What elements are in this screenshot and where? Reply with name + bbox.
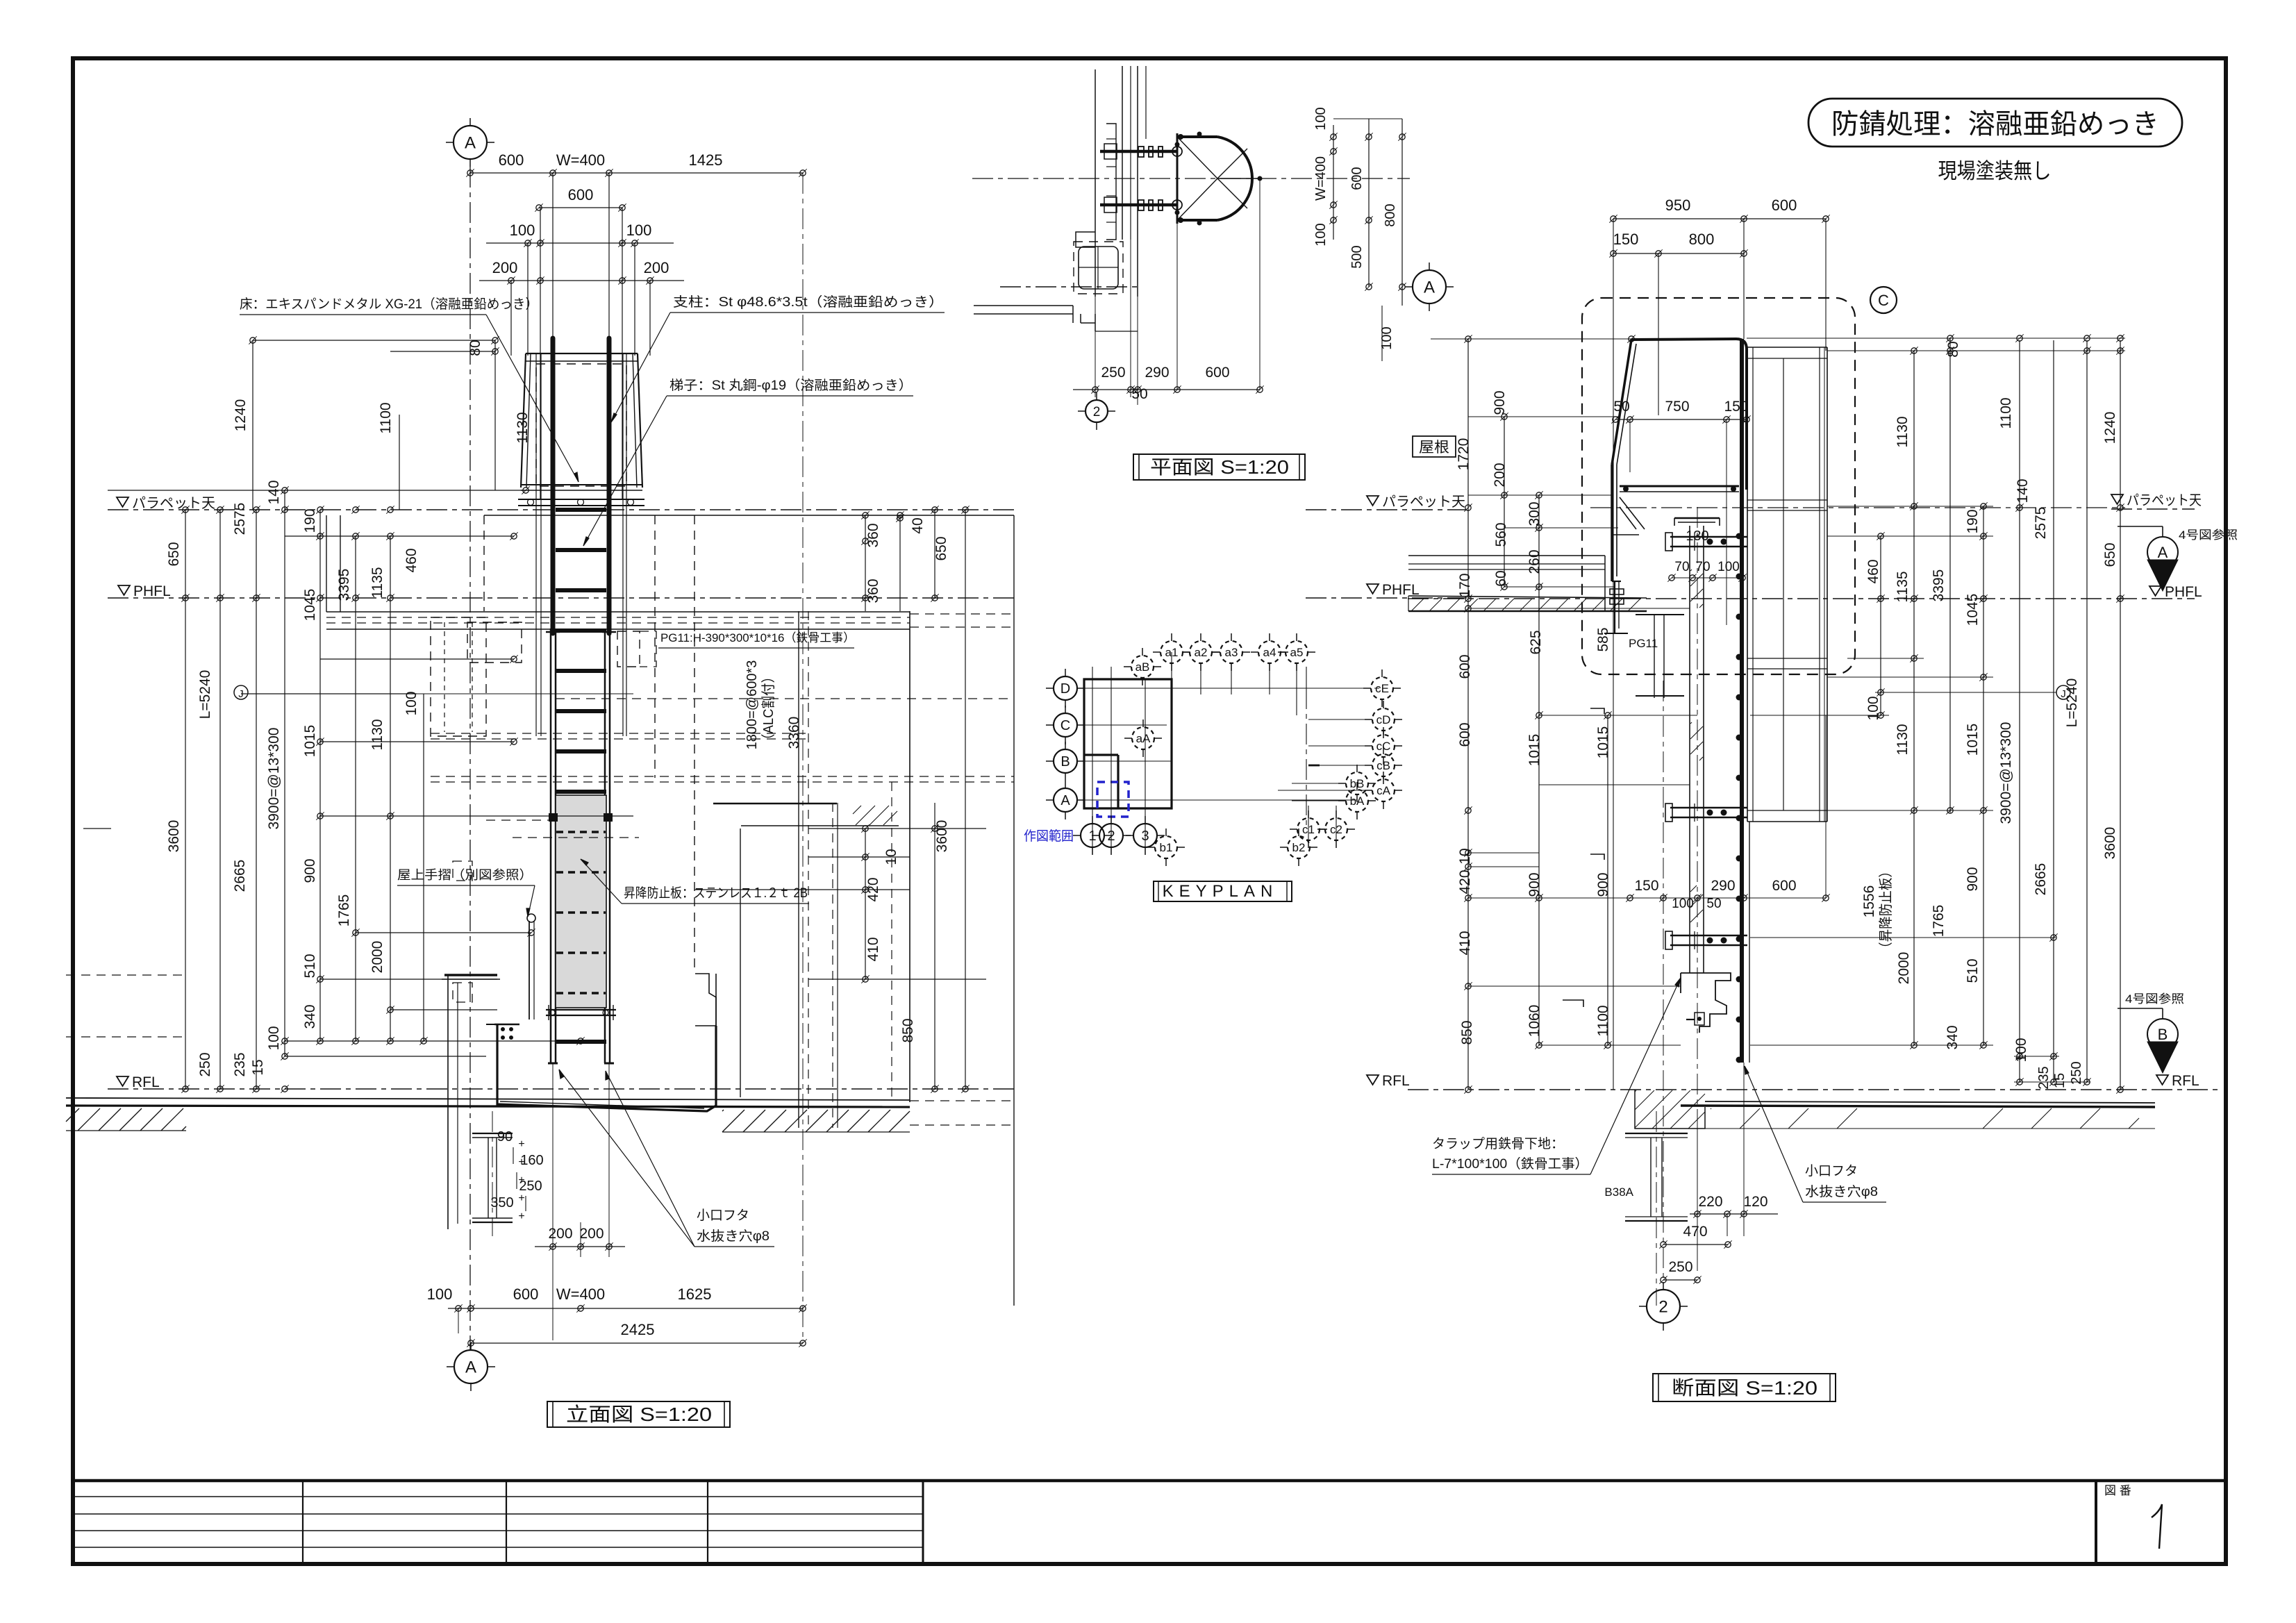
title block table [73, 1479, 2226, 1483]
svg-text:2575: 2575 [232, 503, 248, 535]
svg-text:a3: a3 [1225, 646, 1238, 659]
svg-text:70: 70 [1695, 560, 1710, 574]
svg-text:3395: 3395 [1931, 569, 1947, 602]
svg-text:4号図参照: 4号図参照 [2179, 528, 2238, 542]
plan grid circle A right [1413, 270, 1446, 303]
section cage knee braces [1620, 497, 1645, 529]
ladder cage post left 支柱 [551, 338, 556, 633]
plan view title box 平面図 S=1:20 [1133, 454, 1305, 480]
svg-text:3900=@13*300: 3900=@13*300 [266, 728, 282, 830]
svg-text:RFL: RFL [2172, 1073, 2199, 1089]
keyplan building outline bold [1084, 679, 1172, 808]
svg-text:585: 585 [1595, 627, 1611, 651]
svg-text:850: 850 [900, 1018, 916, 1042]
elevation view title box 立面図 S=1:20 [547, 1401, 730, 1427]
svg-text:B38A: B38A [1604, 1185, 1633, 1199]
elevation mid dashed band [431, 733, 806, 734]
svg-text:+: + [518, 1210, 524, 1222]
section cage floor [1620, 485, 1739, 488]
plan right dim chain W400 [1333, 125, 1334, 240]
svg-text:（昇降防止板）: （昇降防止板） [1878, 865, 1894, 955]
svg-text:360: 360 [865, 523, 881, 547]
level label parapet right [2111, 494, 2123, 504]
svg-text:W=400: W=400 [556, 151, 605, 169]
svg-text:900: 900 [1526, 872, 1542, 897]
svg-text:小口フタ: 小口フタ [1805, 1163, 1858, 1179]
plan building edge lines left [1000, 286, 1138, 288]
stamp box 防錆処理：溶融亜鉛めっき [1808, 99, 2182, 147]
svg-text:260: 260 [1526, 549, 1542, 574]
elevation right dim ticks [863, 513, 868, 518]
plan bolt tie lower [1100, 203, 1177, 207]
svg-text:1: 1 [1088, 829, 1096, 844]
section concrete pier hatched [1635, 1090, 1705, 1129]
svg-text:1625: 1625 [678, 1285, 712, 1303]
svg-text:1015: 1015 [302, 725, 318, 758]
level label PHFL mid [1367, 584, 1379, 594]
svg-text:PHFL: PHFL [2165, 584, 2202, 600]
svg-text:650: 650 [2102, 542, 2118, 567]
svg-text:3600: 3600 [166, 820, 182, 853]
keyplan left grid circles D C B A [1054, 676, 1077, 700]
svg-text:2575: 2575 [2033, 507, 2049, 540]
level label PHFL right [2149, 586, 2161, 596]
section right grid circle J [2056, 685, 2070, 699]
KEYPLAN title box [1154, 881, 1292, 901]
level label parapet left [117, 497, 128, 507]
section parapet cap [1674, 517, 1720, 519]
elevation dashed wall outline left of ladder lower [486, 819, 552, 821]
svg-text:2665: 2665 [232, 860, 248, 892]
svg-text:C: C [1060, 718, 1070, 733]
svg-text:600: 600 [1349, 167, 1365, 190]
panel lower bracket [546, 1009, 616, 1010]
svg-text:3600: 3600 [2102, 827, 2118, 860]
svg-text:C: C [1878, 292, 1889, 309]
cage mid rail [521, 484, 642, 485]
section reference marker A 4号図参照 [2118, 526, 2163, 527]
svg-text:235: 235 [232, 1052, 248, 1076]
svg-text:A: A [1424, 278, 1435, 297]
elevation connector plate right of ladder [617, 631, 640, 667]
section cage top rail bold [1631, 339, 1747, 490]
elevation long dashed line below J level [556, 698, 1014, 699]
svg-text:200: 200 [644, 259, 669, 276]
keyplan blue drawing-scope box [1097, 782, 1129, 817]
svg-text:a5: a5 [1290, 646, 1304, 659]
svg-text:1045: 1045 [302, 589, 318, 622]
svg-text:140: 140 [2015, 478, 2031, 503]
svg-text:120: 120 [1743, 1194, 1767, 1210]
level label RFL right [2156, 1075, 2168, 1085]
plan left wall lines extended [974, 305, 1000, 306]
svg-text:パラペット天: パラペット天 [132, 496, 215, 511]
svg-text:235: 235 [2036, 1066, 2052, 1089]
svg-text:図 番: 図 番 [2104, 1484, 2131, 1497]
elevation left dim horizontals [108, 490, 526, 491]
svg-text:3600: 3600 [934, 820, 950, 853]
section right dim verticals [1880, 536, 1881, 715]
svg-text:cB: cB [1376, 759, 1390, 772]
section roof slab hatched [1408, 596, 1647, 598]
svg-text:200: 200 [492, 259, 518, 276]
svg-text:100: 100 [404, 691, 419, 715]
svg-text:RFL: RFL [132, 1074, 160, 1090]
svg-text:1765: 1765 [1931, 905, 1947, 938]
ladder cage post right [607, 338, 612, 633]
svg-text:100: 100 [1313, 107, 1329, 130]
level label parapet mid [1367, 496, 1379, 506]
svg-text:1765: 1765 [336, 894, 352, 927]
svg-text:2665: 2665 [2033, 863, 2049, 896]
elevation wall verticals left segment [326, 515, 327, 612]
elevation rail clamps [549, 813, 558, 822]
svg-text:100: 100 [1672, 897, 1694, 911]
svg-text:PG11: PG11 [1629, 637, 1658, 650]
svg-text:1100: 1100 [378, 402, 394, 433]
svg-text:140: 140 [266, 480, 282, 504]
elevation parapet wall top edge [484, 515, 1014, 516]
section cage front slant bold [1612, 340, 1631, 465]
svg-text:1720: 1720 [1456, 438, 1472, 471]
svg-text:1015: 1015 [1965, 724, 1981, 756]
keyplan top sub circles aB aA [1131, 656, 1154, 678]
svg-text:600: 600 [1205, 365, 1229, 381]
svg-text:cE: cE [1375, 682, 1389, 695]
plan ladder cage D-shape [1177, 135, 1217, 138]
svg-text:220: 220 [1698, 1194, 1722, 1210]
svg-text:510: 510 [302, 954, 318, 978]
elevation I-beam bottom left [472, 1133, 513, 1134]
svg-text:b2: b2 [1292, 841, 1306, 854]
plan right dim chain 600 500 800 [1368, 119, 1370, 287]
elevation parapet cap left [444, 974, 497, 976]
svg-text:PHFL: PHFL [133, 583, 171, 599]
plan cage spokes [1177, 137, 1217, 178]
drawing number cell 図番 [2095, 1481, 2097, 1565]
svg-text:b1: b1 [1160, 841, 1173, 854]
svg-text:250: 250 [197, 1052, 213, 1076]
svg-text:50: 50 [1131, 386, 1147, 402]
svg-text:昇降防止板：ステンレス１.２ｔ 2B: 昇降防止板：ステンレス１.２ｔ 2B [624, 885, 808, 901]
svg-text:190: 190 [1965, 509, 1981, 533]
elevation left dim verticals [185, 510, 186, 1089]
section lower coping shape [1681, 973, 1731, 1033]
svg-text:350: 350 [490, 1195, 513, 1210]
section ALC wall panel right of ladder [1747, 347, 1748, 822]
svg-text:cD: cD [1376, 713, 1391, 726]
elevation bottom slab [66, 1098, 910, 1100]
level line PHFL [108, 597, 1014, 599]
svg-text:200: 200 [1492, 463, 1508, 487]
svg-text:断面図 S=1:20: 断面図 S=1:20 [1672, 1377, 1817, 1399]
ladder stile right lower double line [604, 629, 606, 1063]
svg-text:100: 100 [266, 1026, 282, 1050]
svg-text:600: 600 [1772, 197, 1797, 214]
svg-text:250: 250 [1101, 365, 1125, 381]
elevation grid circle J left [234, 685, 248, 699]
elevation roof handrail post [529, 921, 530, 1019]
svg-text:100: 100 [510, 222, 535, 239]
svg-text:650: 650 [933, 536, 949, 560]
section grid2 chain line [1663, 681, 1664, 1288]
svg-text:B: B [2158, 1026, 2168, 1043]
svg-text:50: 50 [1706, 897, 1721, 911]
svg-text:500: 500 [1349, 245, 1365, 268]
plan bottom dim 100 [1381, 306, 1383, 361]
svg-text:1425: 1425 [689, 151, 723, 169]
svg-text:防錆処理：溶融亜鉛めっき: 防錆処理：溶融亜鉛めっき [1831, 109, 2159, 140]
section dashed rounded enclosure [1582, 298, 1855, 674]
svg-text:現場塗装無し: 現場塗装無し [1938, 159, 2052, 183]
svg-text:梯子：St 丸鋼-φ19（溶融亜鉛めっき）: 梯子：St 丸鋼-φ19（溶融亜鉛めっき） [669, 378, 913, 393]
svg-text:1135: 1135 [1895, 571, 1911, 602]
keyplan right chain lines [1306, 688, 1307, 829]
svg-text:A: A [2158, 544, 2168, 561]
svg-text:1240: 1240 [233, 399, 249, 432]
section panel plate thin line [1749, 822, 1750, 1063]
svg-text:bA: bA [1350, 794, 1365, 808]
svg-text:L-7*100*100（鉄骨工事）: L-7*100*100（鉄骨工事） [1432, 1156, 1588, 1172]
svg-text:3360: 3360 [786, 717, 802, 749]
svg-text:W=400: W=400 [1313, 156, 1329, 201]
elevation grid circle A bottom [454, 1350, 488, 1383]
plan bolt tie upper [1100, 150, 1177, 153]
svg-text:RFL: RFL [1382, 1073, 1410, 1089]
svg-text:625: 625 [1528, 630, 1544, 654]
svg-text:40: 40 [910, 517, 926, 533]
svg-text:600: 600 [1457, 654, 1473, 679]
svg-text:1556: 1556 [1861, 885, 1877, 918]
section wall centerline [1697, 507, 1698, 1118]
svg-text:3: 3 [1141, 829, 1149, 844]
section I-beam below slab [1625, 1133, 1688, 1134]
roof label box 屋根 [1413, 436, 1456, 457]
svg-text:150: 150 [1724, 399, 1748, 415]
svg-text:1240: 1240 [2102, 412, 2118, 444]
svg-text:100: 100 [1313, 223, 1329, 246]
svg-text:600: 600 [568, 186, 594, 203]
svg-text:100: 100 [427, 1285, 453, 1303]
svg-text:KEYPLAN: KEYPLAN [1163, 882, 1279, 901]
svg-text:水抜き穴φ8: 水抜き穴φ8 [697, 1229, 770, 1244]
svg-text:支柱：St φ48.6*3.5t（溶融亜鉛めっき）: 支柱：St φ48.6*3.5t（溶融亜鉛めっき） [673, 294, 944, 310]
svg-text:90: 90 [497, 1129, 513, 1145]
svg-text:立面図 S=1:20: 立面図 S=1:20 [566, 1404, 712, 1425]
ladder bottom rung [556, 1040, 606, 1044]
section left dim verticals [1467, 339, 1469, 1090]
elevation tray bolts [501, 1027, 505, 1031]
svg-text:1045: 1045 [1965, 594, 1981, 626]
elevation extension verticals from dims [510, 281, 512, 356]
svg-text:W=400: W=400 [556, 1285, 605, 1303]
section ladder rung dots [1736, 533, 1742, 540]
svg-text:A: A [465, 1358, 476, 1377]
elevation safety cage outline [521, 353, 526, 488]
svg-text:100: 100 [626, 222, 652, 239]
svg-text:200: 200 [548, 1226, 572, 1242]
svg-text:900: 900 [1965, 867, 1981, 891]
svg-text:cA: cA [1376, 784, 1391, 797]
svg-text:1135: 1135 [369, 567, 385, 598]
elevation right wall bold lines near RFL [713, 803, 837, 805]
level line parapet-ten [108, 509, 1014, 510]
elevation PHFL slab band [326, 611, 910, 613]
svg-text:510: 510 [1965, 958, 1981, 983]
elevation coping right S-shape [695, 974, 716, 1026]
section view title box 断面図 S=1:20 [1653, 1374, 1836, 1401]
svg-text:460: 460 [1865, 559, 1881, 583]
svg-text:170: 170 [1457, 573, 1473, 597]
plan centerline horizontal [972, 178, 1410, 179]
svg-text:1100: 1100 [1595, 1005, 1611, 1036]
svg-text:D: D [1060, 681, 1070, 697]
svg-text:420: 420 [1457, 869, 1473, 894]
elevation top-left dim verticals [252, 340, 253, 510]
svg-text:a1: a1 [1165, 646, 1179, 659]
section cage lower post [1612, 581, 1621, 582]
svg-text:aB: aB [1135, 660, 1150, 674]
keyplan right circles cE cD cC cB cA bB bA [1371, 677, 1393, 699]
svg-text:560: 560 [1493, 522, 1509, 547]
svg-text:2425: 2425 [621, 1321, 655, 1338]
svg-text:a4: a4 [1263, 646, 1276, 659]
section ladder rail bold [1740, 339, 1744, 1063]
plan grid circle 2 [1085, 400, 1108, 422]
svg-text:c2: c2 [1330, 823, 1342, 836]
svg-text:J: J [238, 688, 244, 700]
svg-text:600: 600 [513, 1285, 539, 1303]
svg-text:a2: a2 [1195, 646, 1208, 659]
ladder rungs upper [556, 508, 606, 512]
svg-text:（ALC割付）: （ALC割付） [760, 670, 776, 747]
svg-text:290: 290 [1711, 878, 1735, 894]
svg-text:600: 600 [1772, 878, 1796, 894]
svg-text:1015: 1015 [1526, 734, 1542, 767]
svg-text:作図範囲: 作図範囲 [1024, 829, 1074, 844]
svg-text:460: 460 [404, 548, 419, 572]
svg-text:1015: 1015 [1595, 726, 1611, 759]
keyplan bottom circles c1 c2 b1 b2 [1297, 818, 1320, 840]
svg-text:1130: 1130 [369, 719, 385, 750]
svg-text:L=5240: L=5240 [197, 670, 213, 719]
svg-text:600: 600 [1457, 722, 1473, 747]
section floor slab bottom [1705, 1101, 2155, 1103]
elevation right dim verticals [865, 515, 866, 611]
svg-text:15: 15 [2052, 1073, 2068, 1088]
ladder post base plates [546, 631, 560, 633]
section angle bits on left wall face [1590, 708, 1604, 714]
svg-text:B: B [1060, 754, 1070, 769]
svg-text:パラペット天: パラペット天 [1382, 494, 1465, 510]
svg-text:2: 2 [1658, 1298, 1667, 1317]
svg-text:1800=@600*3: 1800=@600*3 [744, 660, 760, 750]
ladder stile feet [548, 1063, 558, 1065]
svg-text:340: 340 [1945, 1025, 1961, 1049]
svg-text:70: 70 [1674, 560, 1689, 574]
svg-text:600: 600 [499, 151, 524, 169]
ladder stile left lower double line [550, 629, 552, 1063]
svg-text:900: 900 [302, 858, 318, 883]
section lower coping bolts [1695, 1013, 1704, 1025]
svg-text:150: 150 [1634, 878, 1658, 894]
svg-text:410: 410 [865, 937, 881, 961]
keyplan top circles a1-a5 [1161, 641, 1183, 663]
svg-text:900: 900 [1492, 390, 1508, 415]
svg-text:800: 800 [1689, 231, 1715, 248]
level label PHFL left [118, 585, 130, 595]
svg-text:タラップ用鉄骨下地：: タラップ用鉄骨下地： [1432, 1136, 1564, 1151]
svg-text:4号図参照: 4号図参照 [2125, 992, 2184, 1006]
level label RFL mid [1367, 1075, 1379, 1085]
section parapet wall [1689, 526, 1690, 973]
svg-text:950: 950 [1665, 197, 1691, 214]
svg-text:床：エキスパンドメタル XG-21（溶融亜鉛めっき）: 床：エキスパンドメタル XG-21（溶融亜鉛めっき） [240, 297, 538, 312]
section reference marker B 4号図参照 [2118, 1008, 2163, 1009]
elevation grid circle A top [454, 126, 487, 159]
svg-text:J: J [2061, 688, 2066, 700]
svg-text:150: 150 [1613, 231, 1639, 248]
section grid circle C [1870, 287, 1897, 313]
svg-text:+: + [518, 1138, 524, 1150]
svg-text:水抜き穴φ8: 水抜き穴φ8 [1805, 1184, 1878, 1199]
svg-text:2000: 2000 [1896, 952, 1912, 985]
climb-guard plate 昇降防止板 grey panel [556, 795, 606, 1008]
section wall brackets bolted [1670, 536, 1747, 538]
svg-text:250: 250 [2069, 1061, 2084, 1084]
svg-text:190: 190 [302, 508, 318, 533]
svg-text:+: + [518, 1192, 524, 1204]
elevation lower-left wall lines [66, 974, 186, 976]
keyplan horizontal grid lines [1076, 688, 1361, 689]
plan wall vertical lines [1095, 69, 1096, 297]
elevation wall verticals [483, 515, 485, 611]
svg-text:PG11:H-390*300*10*16（鉄骨工事）: PG11:H-390*300*10*16（鉄骨工事） [660, 631, 855, 644]
svg-text:850: 850 [1459, 1020, 1475, 1044]
plan corner angle box [1074, 242, 1123, 294]
svg-text:A: A [1060, 793, 1070, 808]
level line RFL [108, 1088, 1014, 1090]
cage floor frame [518, 499, 644, 500]
svg-text:200: 200 [579, 1226, 604, 1242]
svg-text:340: 340 [302, 1004, 318, 1029]
svg-text:900: 900 [1595, 872, 1611, 897]
svg-text:650: 650 [166, 542, 182, 566]
svg-text:小口フタ: 小口フタ [697, 1208, 749, 1223]
svg-text:c1: c1 [1302, 823, 1315, 836]
svg-text:1100: 1100 [1998, 397, 2014, 428]
svg-text:100: 100 [1379, 326, 1395, 349]
keyplan bottom grid circles 1 2 3 [1081, 824, 1104, 847]
svg-text:130: 130 [1686, 528, 1708, 544]
svg-text:屋上手摺（別図参照）: 屋上手摺（別図参照） [397, 868, 533, 882]
section roof deck left [1408, 555, 1605, 556]
svg-text:470: 470 [1683, 1224, 1707, 1240]
svg-text:2000: 2000 [369, 941, 385, 974]
svg-text:1060: 1060 [1526, 1005, 1542, 1038]
svg-text:1130: 1130 [1895, 724, 1911, 755]
elevation lower dashed squares [453, 861, 472, 881]
svg-text:3395: 3395 [336, 569, 352, 601]
svg-text:160: 160 [520, 1153, 543, 1168]
svg-text:410: 410 [1457, 931, 1473, 955]
svg-text:250: 250 [1668, 1259, 1692, 1275]
svg-text:パラペット天: パラペット天 [2127, 493, 2202, 508]
svg-text:800: 800 [1383, 203, 1398, 226]
svg-text:250: 250 [519, 1179, 542, 1194]
svg-text:A: A [465, 134, 476, 153]
level label RFL left [117, 1076, 128, 1086]
